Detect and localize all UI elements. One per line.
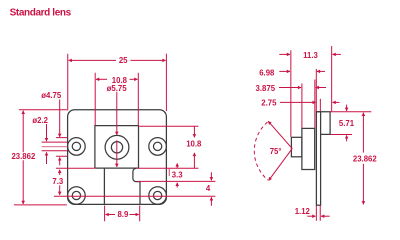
dim 10.8 top extension lines <box>95 73 138 126</box>
svg-text:10.8: 10.8 <box>186 140 202 149</box>
svg-text:75°: 75° <box>270 147 282 156</box>
dim 10.8 right arrows <box>193 126 195 137</box>
dim 23.862 left extension lines <box>14 110 67 205</box>
dim 1.12 extension lines <box>316 206 320 221</box>
svg-text:7.3: 7.3 <box>52 177 64 186</box>
svg-text:4: 4 <box>206 184 211 193</box>
dim 4 arrows <box>210 172 212 180</box>
svg-text:Standard lens: Standard lens <box>10 8 72 19</box>
svg-text:23.862: 23.862 <box>11 152 36 161</box>
block bottom extension line left <box>56 167 95 169</box>
front view center square block <box>95 126 139 169</box>
hole top-right inner <box>153 142 161 150</box>
dim 23.862 right arrows <box>362 113 364 153</box>
dim 11.3 arrows <box>279 53 290 55</box>
notch bottom extension row <box>137 180 215 182</box>
dim 3.3 stub line <box>168 169 170 176</box>
hole top-right outer <box>149 138 167 156</box>
hole centerline row <box>54 195 216 197</box>
side extension line lens body face <box>301 84 303 129</box>
svg-text:3.3: 3.3 <box>172 171 184 180</box>
hole top-left inner <box>72 142 80 150</box>
block bottom extension line right <box>138 167 199 169</box>
dim 1.12 arrows <box>307 215 315 217</box>
side extension line step rear <box>331 46 333 111</box>
dia 4.75 tangent lines <box>56 138 67 157</box>
angle 75 dashed arc with arrows <box>254 122 268 180</box>
hole bottom-left outer <box>68 187 86 205</box>
svg-text:6.98: 6.98 <box>259 69 275 78</box>
svg-text:25: 25 <box>119 56 128 65</box>
dim 5.71 extension lines <box>330 112 371 135</box>
dim 5.71 arrows <box>346 105 348 111</box>
side extension line lens tip face <box>290 50 292 137</box>
svg-text:ø4.75: ø4.75 <box>41 91 62 100</box>
dim 2.75 arrows <box>280 101 316 103</box>
side view lens body <box>302 128 315 169</box>
dim 8.9 extension lines <box>105 206 140 222</box>
dim 3.3 arrows <box>176 163 178 168</box>
svg-text:5.71: 5.71 <box>339 119 355 128</box>
svg-text:8.9: 8.9 <box>117 210 129 219</box>
leader dia 4.75 <box>59 100 61 137</box>
dim 25 extension lines <box>68 54 167 111</box>
svg-text:2.75: 2.75 <box>261 98 277 107</box>
dim 7.3 upper arrow <box>59 170 61 175</box>
dim 23.862 left arrows <box>22 111 24 153</box>
svg-text:3.875: 3.875 <box>256 84 276 93</box>
top holes centerline <box>42 146 68 148</box>
svg-text:ø5.75: ø5.75 <box>107 84 128 93</box>
front view bottom tab with right notch <box>104 168 140 204</box>
side extension line plate rear <box>319 99 321 112</box>
hole bottom-right inner <box>153 191 161 199</box>
dia 2.2 tangent extension lines <box>42 142 68 151</box>
central boss outer circle <box>105 135 129 159</box>
side view flange plate <box>316 112 320 206</box>
angle 75 side lines <box>268 121 292 148</box>
side view lens tip <box>291 137 302 157</box>
svg-text:ø2.2: ø2.2 <box>32 116 48 125</box>
dim 10.8 top arrows <box>96 78 107 80</box>
dia 4.75 lower arrow <box>59 157 61 165</box>
dimension texts <box>11 51 377 219</box>
side view top step block <box>316 112 330 135</box>
side extension line lens body rear <box>314 80 316 129</box>
hole bottom-right outer <box>149 187 167 205</box>
front view body outline <box>68 110 167 205</box>
leader dia 2.2 <box>46 124 48 141</box>
dim 10.8 right top extension <box>139 125 198 127</box>
dim 3.875 arrows <box>279 87 301 89</box>
dia 2.2 lower arrow <box>46 152 48 164</box>
dim 6.98 arrows <box>279 70 290 72</box>
svg-text:23.862: 23.862 <box>353 154 378 163</box>
dim 25 arrows <box>69 59 116 61</box>
hole bottom-left inner <box>72 191 80 199</box>
dim 8.9 arrows <box>106 214 116 216</box>
svg-text:1.12: 1.12 <box>295 207 311 216</box>
leader dia 5.75 <box>116 92 118 135</box>
side extension line plate front <box>315 69 317 111</box>
central hole inner circle <box>111 142 122 153</box>
dim 7.3 lower arrow <box>59 185 61 195</box>
svg-text:11.3: 11.3 <box>303 51 318 60</box>
hole top-left outer <box>68 138 86 156</box>
